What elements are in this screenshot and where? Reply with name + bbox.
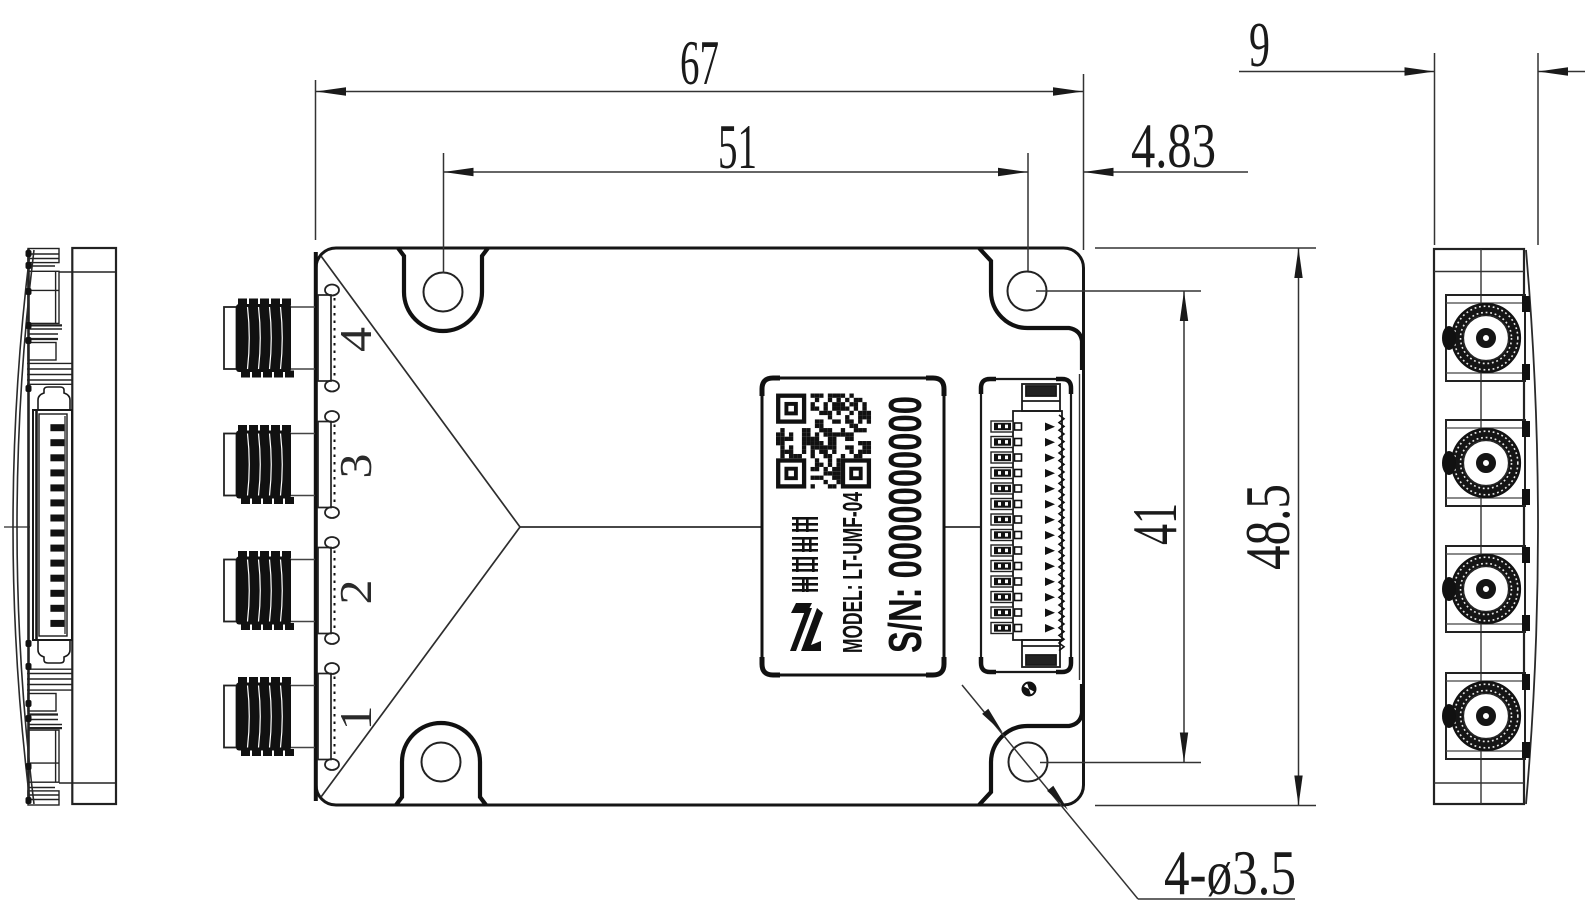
dimension 9 xyxy=(1239,53,1585,245)
SMA connector front face 4 (right view) xyxy=(1442,295,1530,381)
main view: inner right edge line xyxy=(1079,374,1081,680)
svg-text:48.5: 48.5 xyxy=(1232,484,1303,570)
mounting hole bottom-left xyxy=(422,743,461,782)
company logo mark xyxy=(790,603,823,651)
dimension 51 xyxy=(444,153,1029,273)
main top view: module body outline xyxy=(316,248,1084,805)
connector pin rows xyxy=(991,421,1055,634)
svg-text:4.83: 4.83 xyxy=(1131,110,1216,181)
left view: junction dots xyxy=(26,250,32,804)
svg-text:1: 1 xyxy=(330,706,381,731)
SMA connector front face 3 (right view) xyxy=(1442,420,1530,506)
svg-text:3: 3 xyxy=(330,454,381,479)
product label sticker xyxy=(762,378,944,675)
svg-text:51: 51 xyxy=(718,111,757,182)
right side view: module body xyxy=(1434,249,1524,804)
svg-text:67: 67 xyxy=(680,27,719,98)
chamfer V lines xyxy=(321,256,981,797)
dimension 4.83 xyxy=(1084,171,1249,173)
main view: thick left edge xyxy=(314,252,318,801)
SMA connector front face 2 (right view) xyxy=(1442,546,1530,632)
left view: 30-pin header connector profile xyxy=(33,387,72,663)
mounting hole pocket bottom-left xyxy=(396,723,486,805)
mounting hole top-right xyxy=(1008,272,1047,311)
SMA connector front face 1 (right view) xyxy=(1442,673,1530,759)
mounting hole pocket bottom-right (J-shaped cutout) xyxy=(979,684,1082,805)
30-pin header connector (top view) xyxy=(981,379,1071,672)
dimension 67 xyxy=(316,74,1084,250)
svg-text:4: 4 xyxy=(330,327,381,352)
mounting hole top-left xyxy=(424,273,463,312)
SMA connector J3 (main view) xyxy=(224,411,339,518)
svg-text:S/N: 0000000000: S/N: 0000000000 xyxy=(879,396,931,653)
SMA connector J2 (main view) xyxy=(224,537,339,644)
svg-text:9: 9 xyxy=(1249,9,1270,80)
right view: bowed plate xyxy=(1526,250,1538,804)
SMA connector J4 (main view) xyxy=(224,285,339,392)
connector screw xyxy=(1023,683,1036,696)
dimension 48.5 xyxy=(1095,248,1316,806)
mounting hole pocket top-left xyxy=(398,248,488,331)
SMA connector J1 (main view) xyxy=(224,663,339,770)
svg-text:MODEL: LT-UMF-04: MODEL: LT-UMF-04 xyxy=(837,492,868,653)
company name glyphs (stylized) xyxy=(792,517,818,592)
left side view: module left profile xyxy=(27,248,116,805)
connector serrated edge xyxy=(1059,415,1064,651)
left view: bowed spring plate arcs xyxy=(4,250,34,804)
QR code on label xyxy=(776,394,871,489)
svg-text:41: 41 xyxy=(1119,503,1190,545)
mounting hole bottom-right xyxy=(1009,743,1048,782)
mounting hole pocket top-right (J-shaped cutout) xyxy=(979,248,1082,370)
svg-text:4-ø3.5: 4-ø3.5 xyxy=(1164,837,1296,908)
callout 4-dia3.5 leader xyxy=(962,685,1295,899)
left view connector pins xyxy=(50,424,64,627)
dimension 41 xyxy=(1036,291,1201,763)
svg-text:2: 2 xyxy=(330,580,381,605)
